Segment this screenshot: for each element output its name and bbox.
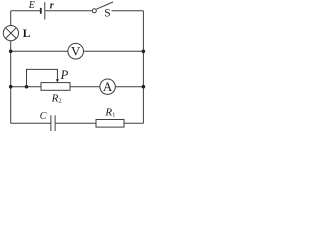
switch blade bbox=[96, 2, 113, 9]
node junction right-A bbox=[142, 85, 146, 89]
switch S bbox=[92, 2, 113, 13]
wire left side bbox=[10, 11, 12, 124]
wire bottom bbox=[11, 122, 144, 124]
svg-text:C: C bbox=[40, 111, 47, 122]
rheostat R2 box bbox=[41, 83, 70, 91]
wire voltmeter branch bbox=[11, 50, 144, 52]
battery E r bbox=[41, 2, 45, 19]
wire rheostat-ammeter branch bbox=[11, 86, 144, 88]
svg-text:R1: R1 bbox=[104, 106, 115, 118]
node junction left-V bbox=[9, 50, 13, 54]
node junction left-A bbox=[9, 85, 13, 89]
wire top-left segment bbox=[11, 10, 41, 12]
wire switch-to-right segment bbox=[112, 10, 144, 12]
capacitor C plates bbox=[51, 115, 55, 131]
node junction slider bbox=[25, 85, 29, 89]
rheostat slider arrowhead bbox=[56, 79, 59, 82]
capacitor wire mask bbox=[52, 123, 55, 125]
wire right side bbox=[142, 11, 144, 124]
ammeter A bbox=[100, 79, 115, 94]
resistor R1 box bbox=[96, 120, 124, 128]
svg-text:V: V bbox=[71, 44, 81, 59]
switch pivot circle bbox=[92, 9, 96, 13]
rheostat slider wire bbox=[27, 69, 58, 86]
svg-text:P: P bbox=[60, 68, 69, 82]
node junction right-V bbox=[142, 50, 146, 54]
battery long plate bbox=[44, 2, 46, 19]
svg-text:R2: R2 bbox=[51, 93, 62, 105]
wire battery-to-switch segment bbox=[45, 10, 92, 12]
svg-text:r: r bbox=[50, 0, 54, 11]
battery short plate bbox=[40, 8, 42, 14]
voltmeter V bbox=[68, 43, 84, 59]
svg-text:S: S bbox=[104, 7, 110, 19]
lamp L bbox=[3, 25, 18, 40]
svg-text:L: L bbox=[23, 28, 31, 40]
svg-text:A: A bbox=[103, 79, 113, 94]
svg-text:E: E bbox=[28, 0, 35, 11]
